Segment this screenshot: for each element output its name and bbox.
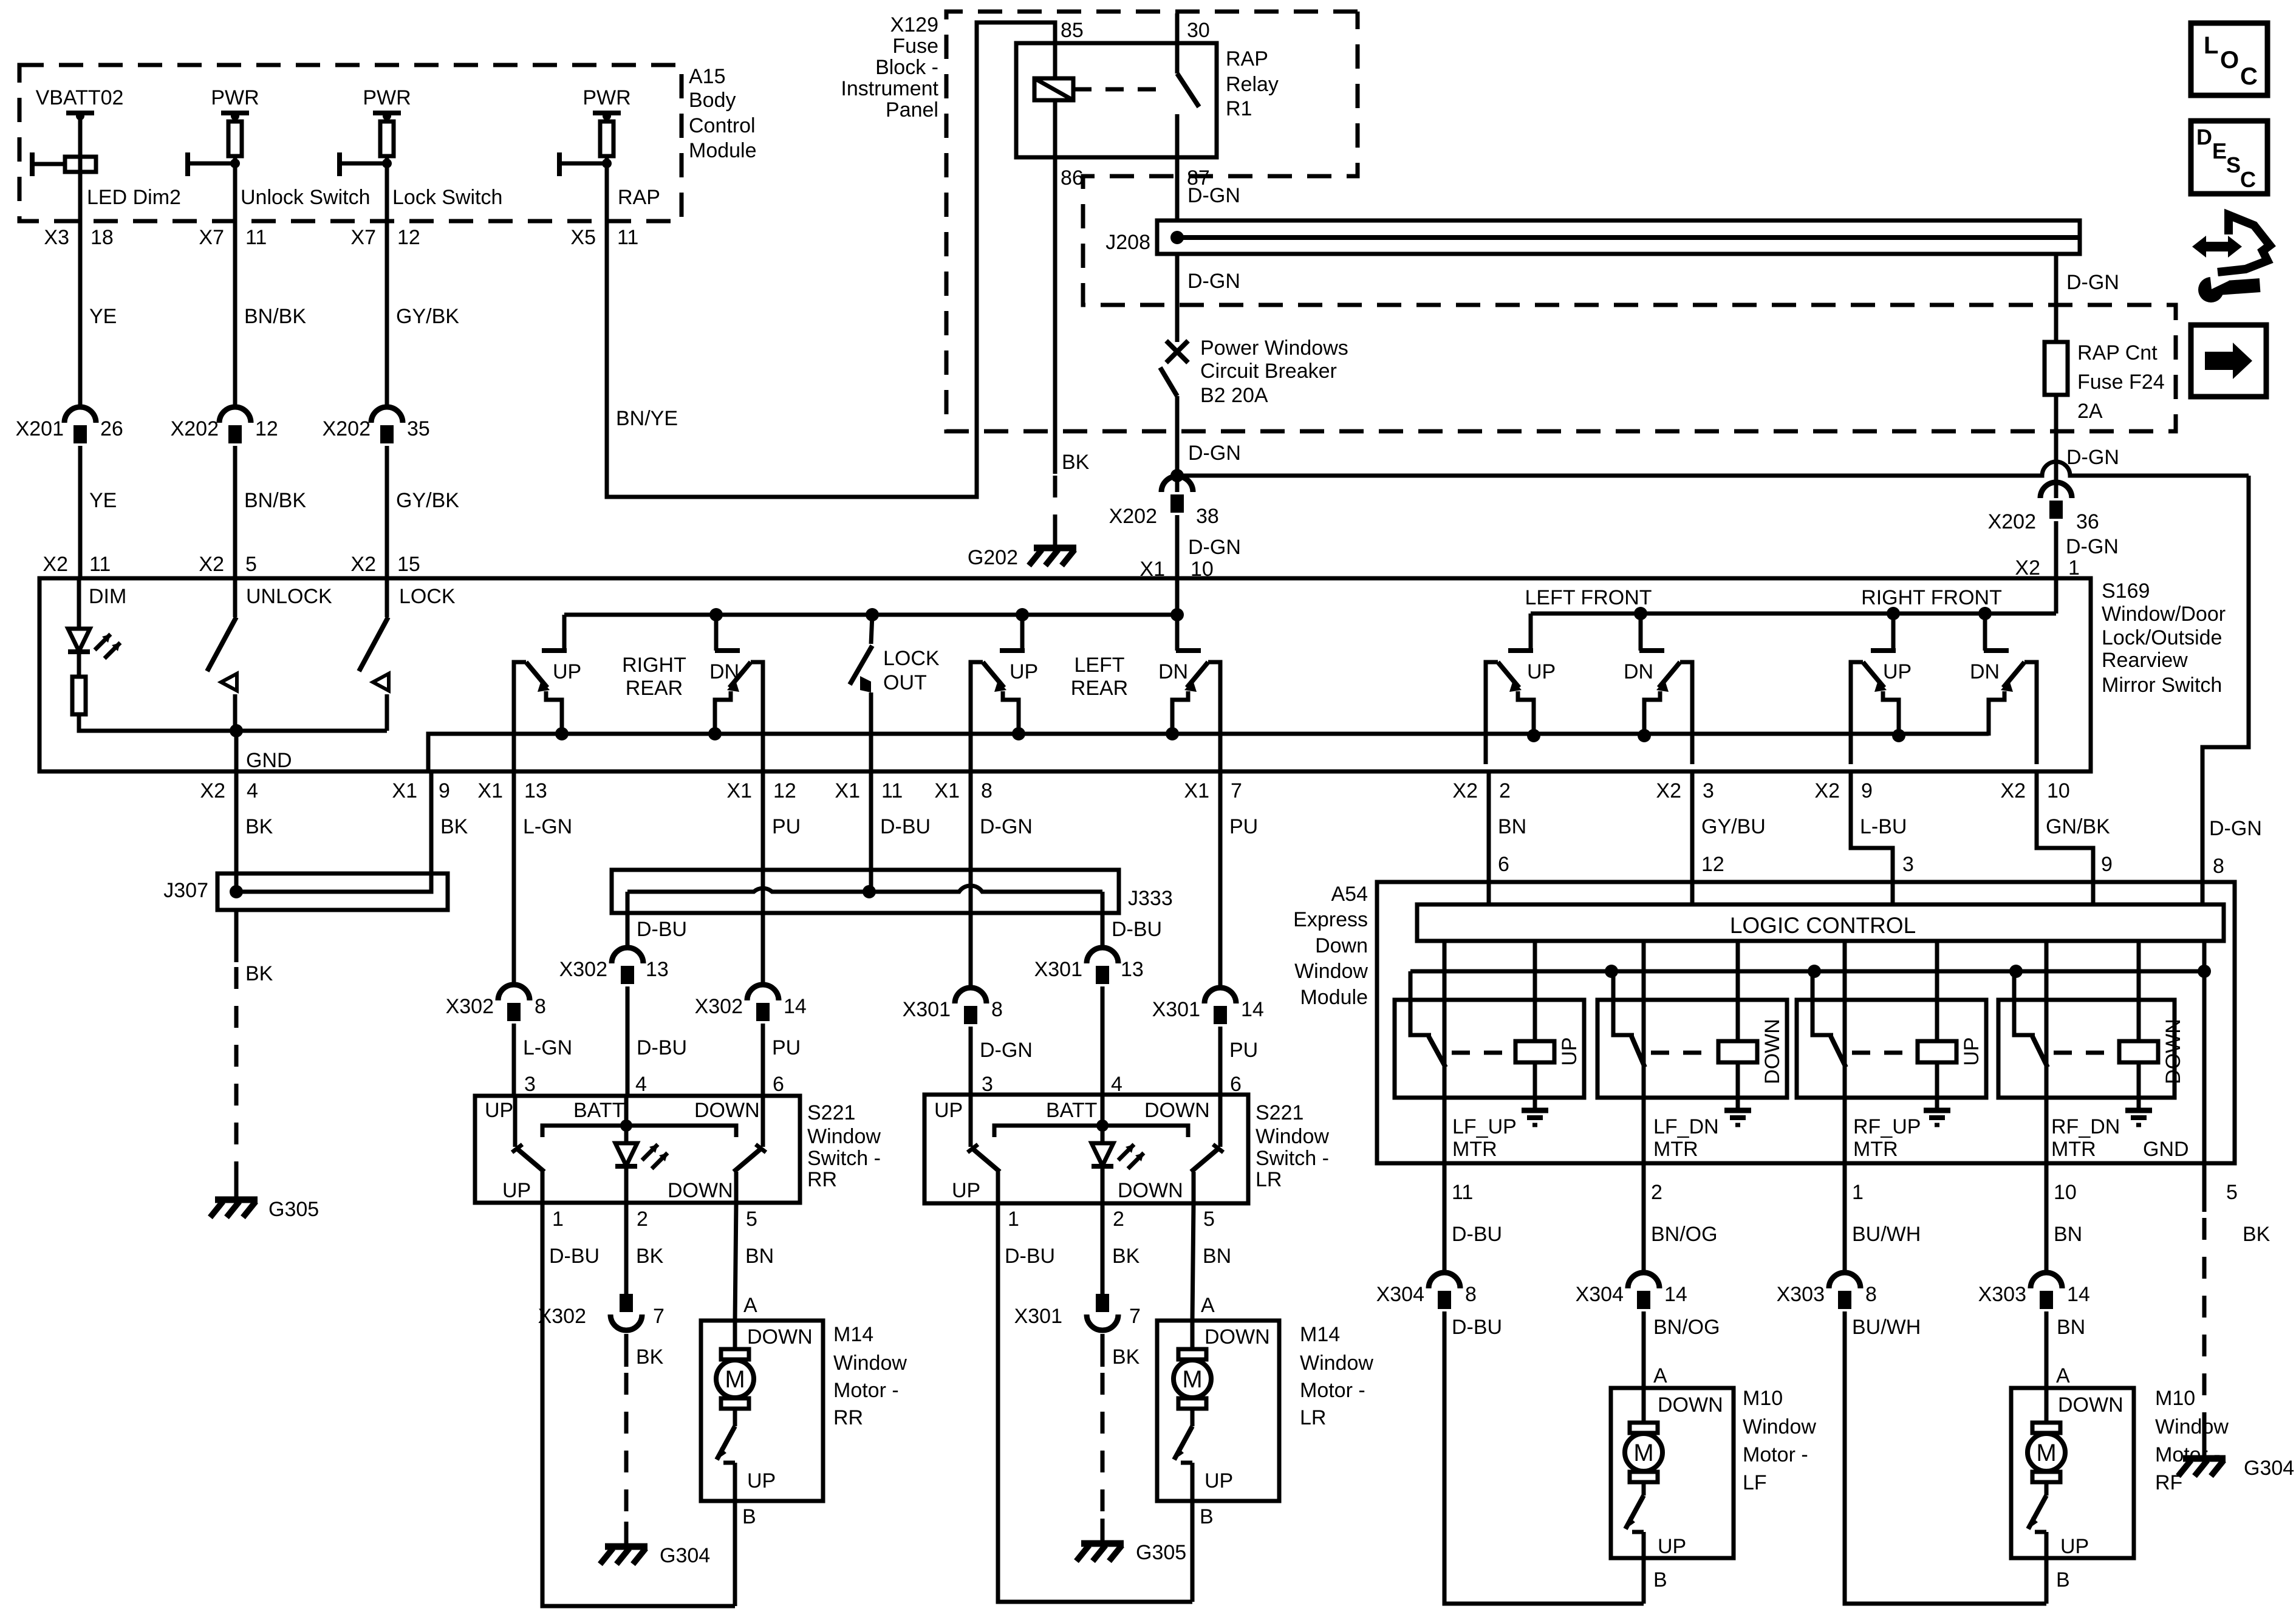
switch LOCK <box>359 578 389 731</box>
svg-text:M: M <box>1182 1366 1202 1393</box>
svg-text:35: 35 <box>407 417 430 440</box>
svg-text:S221: S221 <box>1256 1101 1303 1124</box>
svg-text:X1: X1 <box>934 779 960 802</box>
svg-text:Fuse: Fuse <box>892 35 938 58</box>
wire BN/BK from X7-11 <box>244 305 306 328</box>
svg-text:UP: UP <box>952 1179 980 1202</box>
wire D-GN fuse branch from J208 <box>2056 254 2119 342</box>
label UP motor RF <box>2060 1535 2089 1558</box>
wire D-BU pin1 LR down-route <box>998 1203 1192 1602</box>
svg-text:UP: UP <box>1883 660 1912 683</box>
svg-text:PU: PU <box>1229 1039 1258 1062</box>
svg-text:L: L <box>2204 32 2218 59</box>
LED DIM <box>68 578 120 658</box>
label DN left rear <box>1158 660 1188 683</box>
svg-text:14: 14 <box>1241 998 1264 1021</box>
junction J307 <box>163 873 448 910</box>
svg-text:X5: X5 <box>570 226 596 249</box>
svg-text:7: 7 <box>653 1305 665 1328</box>
label DIM <box>89 585 126 608</box>
svg-text:DN: DN <box>1970 660 2000 683</box>
svg-text:S169: S169 <box>2102 579 2150 603</box>
svg-text:D-BU: D-BU <box>1112 918 1162 941</box>
wire YE lower <box>89 489 117 512</box>
connector X202 38 <box>1109 442 1241 528</box>
svg-text:BK: BK <box>440 815 468 838</box>
label M10 Window Motor - RF <box>2155 1387 2229 1494</box>
svg-text:X1: X1 <box>477 779 503 802</box>
wire GN/BK X2-10 <box>2037 771 2113 904</box>
module A54 box <box>1377 882 2235 1163</box>
wire D-BU J333 to S221 RR batt <box>627 1036 687 1096</box>
svg-text:PU: PU <box>772 815 801 838</box>
switch motor LF <box>1625 1482 1644 1558</box>
node D-GN junction at X202-38 <box>1170 469 1184 482</box>
svg-text:11: 11 <box>881 779 903 802</box>
label A54 Express Down Window Module <box>1293 883 1368 1009</box>
svg-text:8: 8 <box>2213 855 2224 878</box>
svg-text:2A: 2A <box>2077 400 2103 423</box>
svg-text:BN: BN <box>1498 815 1526 838</box>
label X129 Fuse Block - Instrument Panel <box>841 13 938 121</box>
svg-text:D-BU: D-BU <box>637 918 687 941</box>
wire PU X1-7 <box>1220 771 1258 988</box>
svg-text:Switch -: Switch - <box>807 1147 881 1170</box>
svg-text:YE: YE <box>89 305 117 328</box>
switch S221 RR box <box>475 1096 800 1203</box>
svg-text:D-BU: D-BU <box>637 1036 687 1059</box>
svg-text:BN: BN <box>745 1245 774 1268</box>
svg-text:M: M <box>1633 1440 1653 1466</box>
svg-text:10: 10 <box>2054 1181 2077 1204</box>
switch LOCK OUT <box>850 615 872 771</box>
svg-text:BATT: BATT <box>573 1099 624 1122</box>
wire D-BU J333 right drop <box>637 892 1162 948</box>
wire BN/OG pin 2 <box>1644 1163 1718 1273</box>
svg-text:DN: DN <box>1158 660 1188 683</box>
connector X303 8 <box>1777 1273 1877 1309</box>
svg-text:4: 4 <box>635 1073 647 1096</box>
label DOWN motor RR <box>747 1325 813 1349</box>
svg-text:UP: UP <box>934 1099 963 1122</box>
relay R1 box <box>1016 43 1217 157</box>
svg-text:4: 4 <box>247 779 258 802</box>
svg-text:86: 86 <box>1061 166 1084 190</box>
svg-text:Body: Body <box>689 89 736 112</box>
circuit breaker B2 20A <box>1160 337 1348 475</box>
svg-text:X301: X301 <box>1014 1305 1062 1328</box>
svg-text:M: M <box>2036 1440 2056 1466</box>
label UP motor RR <box>747 1469 776 1492</box>
motor M10 RF box <box>2011 1388 2134 1558</box>
wire BK dashed to G304 <box>626 1334 664 1545</box>
motor M14 LR box <box>1157 1321 1279 1501</box>
connector X201 26 <box>16 221 123 578</box>
label relay RF_UP coil UP <box>1960 1037 1983 1065</box>
svg-text:DOWN: DOWN <box>1658 1393 1723 1417</box>
svg-text:12: 12 <box>397 226 420 249</box>
connector X301 7 <box>1014 1294 1141 1330</box>
relay LF_DN coil <box>1718 941 1757 1109</box>
svg-text:BU/WH: BU/WH <box>1852 1223 1921 1246</box>
svg-text:PWR: PWR <box>211 86 259 109</box>
svg-text:BK: BK <box>636 1345 664 1369</box>
svg-text:5: 5 <box>245 553 257 576</box>
junction J333 <box>612 870 1173 913</box>
svg-text:1: 1 <box>1008 1208 1019 1231</box>
svg-text:1: 1 <box>1852 1181 1864 1204</box>
wire D-BU X1-11 lockout <box>871 771 931 892</box>
svg-text:UP: UP <box>2060 1535 2089 1558</box>
wire BK dashed to G305 <box>234 967 239 1198</box>
svg-text:RAP Cnt: RAP Cnt <box>2077 341 2158 364</box>
switch S221 RR DOWN side <box>734 1096 766 1203</box>
svg-text:5: 5 <box>1203 1208 1215 1231</box>
svg-text:UP: UP <box>1658 1535 1686 1558</box>
relay LF_UP switch <box>1410 941 1446 1163</box>
svg-text:D-BU: D-BU <box>1452 1316 1502 1339</box>
svg-text:Unlock Switch: Unlock Switch <box>241 186 371 209</box>
ground G305 <box>210 1198 319 1221</box>
svg-text:Power Windows: Power Windows <box>1200 337 1348 360</box>
wire BK pin2 LR <box>1102 1203 1140 1294</box>
icon arrow box <box>2191 325 2266 397</box>
fuse block X129 dashed outline <box>946 12 2176 431</box>
svg-text:Motor -: Motor - <box>1300 1379 1365 1402</box>
svg-text:UP: UP <box>485 1099 513 1122</box>
svg-text:D-GN: D-GN <box>980 1039 1033 1062</box>
wire BK X1-9 <box>431 771 468 873</box>
svg-text:MTR: MTR <box>1452 1138 1497 1161</box>
svg-text:Module: Module <box>1300 986 1368 1009</box>
svg-text:UP: UP <box>1558 1037 1581 1065</box>
relay RF_UP switch <box>1813 941 1846 1163</box>
svg-text:C: C <box>2240 63 2258 90</box>
svg-text:DOWN: DOWN <box>1761 1019 1784 1084</box>
svg-text:LEFT: LEFT <box>1074 654 1124 677</box>
connector X202 12 <box>171 221 278 578</box>
svg-text:A: A <box>1653 1364 1667 1387</box>
svg-text:X7: X7 <box>350 226 376 249</box>
svg-text:X2: X2 <box>43 553 68 576</box>
svg-text:15: 15 <box>397 553 420 576</box>
motor M10 LF box <box>1611 1388 1734 1558</box>
svg-text:Fuse F24: Fuse F24 <box>2077 371 2165 394</box>
svg-text:6: 6 <box>1498 853 1509 876</box>
svg-text:DOWN: DOWN <box>1118 1179 1183 1202</box>
svg-text:YE: YE <box>89 489 117 512</box>
svg-text:GY/BU: GY/BU <box>1701 815 1766 838</box>
wire front feed bus D-GN <box>1531 612 2056 616</box>
svg-text:LF_UP: LF_UP <box>1452 1115 1517 1138</box>
svg-text:D-GN: D-GN <box>1187 270 1240 293</box>
svg-text:PWR: PWR <box>583 86 630 109</box>
svg-text:13: 13 <box>1121 958 1144 981</box>
svg-text:PU: PU <box>1229 815 1258 838</box>
label S221 Window Switch - RR <box>807 1101 881 1191</box>
svg-text:X1: X1 <box>1184 779 1209 802</box>
svg-text:S: S <box>2226 152 2241 177</box>
svg-text:Window: Window <box>1300 1352 1373 1375</box>
label UP right rear <box>553 660 581 683</box>
svg-text:26: 26 <box>100 417 123 440</box>
svg-text:DOWN: DOWN <box>694 1099 760 1122</box>
svg-text:X129: X129 <box>890 13 938 36</box>
svg-text:M: M <box>725 1366 745 1393</box>
wire GY/BK from X7-12 <box>396 305 459 328</box>
svg-text:GND: GND <box>2143 1138 2189 1161</box>
switch S221 LR UP side <box>968 1095 1000 1203</box>
resistor LED Dim2 <box>32 152 181 209</box>
ground G202 <box>968 546 1076 569</box>
switch S221 LR DOWN side <box>1191 1095 1223 1203</box>
wire D-GN below fuse <box>2056 395 2119 498</box>
svg-text:BN/OG: BN/OG <box>1651 1223 1718 1246</box>
switch RIGHT FRONT DN <box>1984 614 2037 764</box>
svg-text:X304: X304 <box>1576 1283 1624 1306</box>
svg-text:36: 36 <box>2076 510 2099 533</box>
svg-text:BK: BK <box>245 815 273 838</box>
svg-text:X1: X1 <box>392 779 417 802</box>
svg-text:8: 8 <box>1865 1283 1877 1306</box>
relay RF_UP box <box>1797 1000 1986 1098</box>
wire GY/BK lower <box>396 489 459 512</box>
svg-text:G304: G304 <box>2244 1457 2294 1480</box>
svg-text:UP: UP <box>1960 1037 1983 1065</box>
label UP BATT DOWN top row LR <box>934 1099 1210 1122</box>
ground relay LF_DN coil <box>1724 1110 1751 1125</box>
svg-text:2: 2 <box>1499 779 1511 802</box>
LED S221 LR <box>1092 1095 1144 1203</box>
wire BU/WH pin 1 <box>1845 1163 1921 1273</box>
svg-text:GND: GND <box>246 749 292 772</box>
relay LF_UP box <box>1395 1000 1584 1098</box>
wire GY/BU X2-3 <box>1692 771 1766 904</box>
svg-text:D-BU: D-BU <box>1005 1245 1055 1268</box>
svg-text:J307: J307 <box>163 879 208 902</box>
svg-text:UP: UP <box>1204 1469 1233 1492</box>
svg-text:D-GN: D-GN <box>2066 535 2119 558</box>
wire PU X1-12 <box>763 771 801 985</box>
svg-text:X1: X1 <box>835 779 860 802</box>
svg-text:X302: X302 <box>695 995 743 1018</box>
svg-text:RF_DN: RF_DN <box>2051 1115 2120 1138</box>
label LF_DN MTR <box>1653 1115 1719 1161</box>
label RIGHT REAR <box>622 654 686 700</box>
svg-text:X201: X201 <box>16 417 64 440</box>
label RIGHT FRONT <box>1861 586 2002 609</box>
label DOWN motor LR <box>1204 1325 1270 1349</box>
pin labels S221 LR top <box>982 1073 1242 1096</box>
svg-text:Window: Window <box>1294 960 1368 983</box>
svg-text:LR: LR <box>1300 1406 1326 1429</box>
wire BK pin2 RR <box>626 1203 664 1294</box>
svg-text:Window: Window <box>1743 1415 1816 1438</box>
svg-text:LOCK: LOCK <box>399 585 456 608</box>
relay RF_DN actuator dashed <box>2054 1051 2113 1055</box>
svg-text:UP: UP <box>1527 660 1556 683</box>
svg-text:LF: LF <box>1743 1471 1767 1494</box>
svg-text:12: 12 <box>255 417 278 440</box>
switch RIGHT FRONT UP <box>1851 614 1905 764</box>
svg-text:Circuit Breaker: Circuit Breaker <box>1200 360 1337 383</box>
svg-text:Lock Switch: Lock Switch <box>392 186 502 209</box>
svg-text:X2: X2 <box>1814 779 1840 802</box>
svg-text:X2: X2 <box>199 553 224 576</box>
svg-text:RIGHT: RIGHT <box>622 654 686 677</box>
svg-text:X3: X3 <box>44 226 69 249</box>
pin labels S169 bottom <box>200 779 2069 802</box>
wire BN pin 10 <box>2046 1163 2082 1273</box>
svg-text:X301: X301 <box>1152 998 1200 1021</box>
wire L-GN X1-13 <box>514 771 572 985</box>
svg-text:D-GN: D-GN <box>2066 446 2119 469</box>
svg-text:RAP: RAP <box>1226 47 1268 70</box>
svg-text:5: 5 <box>2226 1181 2238 1204</box>
wire D-GN right side down <box>2202 476 2262 904</box>
svg-text:38: 38 <box>1196 505 1219 528</box>
icon DESC box <box>2191 121 2267 194</box>
svg-text:D-GN: D-GN <box>1188 536 1241 559</box>
svg-text:2: 2 <box>1113 1208 1124 1231</box>
svg-text:BK: BK <box>1112 1245 1140 1268</box>
label DOWN motor LF <box>1658 1393 1723 1417</box>
svg-text:DIM: DIM <box>89 585 126 608</box>
svg-text:Block -: Block - <box>875 56 938 79</box>
svg-text:MTR: MTR <box>2051 1138 2096 1161</box>
svg-text:UNLOCK: UNLOCK <box>246 585 332 608</box>
pin labels S221 LR bottom <box>1008 1208 1215 1231</box>
pin PWR RAP <box>583 86 630 121</box>
svg-text:VBATT02: VBATT02 <box>36 86 124 109</box>
svg-text:PU: PU <box>772 1036 801 1059</box>
svg-text:BN: BN <box>2054 1223 2082 1246</box>
wire D-GN X2-1 <box>2015 521 2118 614</box>
svg-text:8: 8 <box>1465 1283 1477 1306</box>
svg-text:5: 5 <box>746 1208 757 1231</box>
svg-text:X304: X304 <box>1376 1283 1424 1306</box>
wire BATT bracket LR <box>994 1120 1188 1137</box>
svg-text:PWR: PWR <box>363 86 411 109</box>
svg-text:4: 4 <box>1111 1073 1122 1096</box>
svg-text:UP: UP <box>1010 660 1038 683</box>
svg-text:BK: BK <box>1112 1345 1140 1369</box>
motor M symbol RR <box>716 1321 754 1409</box>
svg-text:14: 14 <box>784 995 807 1018</box>
ground relay RF_DN coil <box>2125 1110 2152 1125</box>
wire BK dashed to G305 right <box>1102 1334 1140 1542</box>
wire rear feed bus D-GN <box>564 613 1177 617</box>
svg-text:B: B <box>1653 1568 1667 1591</box>
label UP BATT DOWN top row RR <box>485 1099 760 1122</box>
wire BK X2-4 <box>236 771 273 873</box>
label DN left front <box>1624 660 1653 683</box>
svg-text:O: O <box>2220 47 2239 73</box>
connector X301 14 <box>1152 988 1264 1095</box>
connector X304 14 <box>1576 1273 1687 1309</box>
svg-text:6: 6 <box>1230 1073 1242 1096</box>
wire YE from X3-18 <box>89 305 117 328</box>
label relay RF_DN coil DOWN <box>2162 1019 2185 1084</box>
wire BK relay 86 down <box>1055 157 1090 474</box>
svg-text:A15: A15 <box>689 65 726 88</box>
switch LEFT REAR UP <box>971 615 1025 771</box>
svg-text:REAR: REAR <box>626 677 683 700</box>
svg-text:Window: Window <box>2155 1415 2229 1438</box>
svg-text:Mirror Switch: Mirror Switch <box>2102 674 2222 697</box>
connector X304 8 <box>1376 1273 1477 1309</box>
switch motor LR <box>1174 1409 1192 1501</box>
wire BK below J307 solid <box>236 873 273 985</box>
svg-text:S221: S221 <box>807 1101 855 1124</box>
svg-text:C: C <box>2240 167 2256 192</box>
svg-text:RF_UP: RF_UP <box>1853 1115 1921 1138</box>
label UP right front <box>1883 660 1912 683</box>
svg-text:GY/BK: GY/BK <box>396 489 459 512</box>
svg-text:RIGHT FRONT: RIGHT FRONT <box>1861 586 2002 609</box>
svg-text:BN/YE: BN/YE <box>616 407 678 430</box>
svg-text:X303: X303 <box>1978 1283 2026 1306</box>
resistor PWR lock <box>340 121 502 221</box>
svg-text:1: 1 <box>2068 556 2080 579</box>
wire BK pin 5 dashed <box>2204 1163 2270 1455</box>
svg-text:Motor -: Motor - <box>833 1379 899 1402</box>
svg-text:12: 12 <box>1701 853 1724 876</box>
label LOCK OUT <box>883 647 940 694</box>
relay R1 coil <box>1034 43 1073 157</box>
svg-text:3: 3 <box>982 1073 993 1096</box>
svg-text:14: 14 <box>1664 1283 1687 1306</box>
relay R1 actuator dashed <box>1073 87 1170 92</box>
svg-text:RAP: RAP <box>618 186 660 209</box>
svg-text:8: 8 <box>535 995 546 1018</box>
connector X303 14 <box>1978 1273 2090 1309</box>
relay RF_UP coil <box>1918 941 1956 1109</box>
label UNLOCK <box>246 585 332 608</box>
svg-text:X2: X2 <box>2015 556 2040 579</box>
wire GND pin 5 inside A54 <box>2202 941 2207 1163</box>
wire D-GN horizontal to right with hop <box>1177 462 2249 476</box>
svg-text:X301: X301 <box>1034 958 1082 981</box>
svg-text:DOWN: DOWN <box>1144 1099 1210 1122</box>
svg-text:RF: RF <box>2155 1471 2182 1494</box>
svg-text:X302: X302 <box>559 958 607 981</box>
svg-text:GY/BK: GY/BK <box>396 305 459 328</box>
svg-text:3: 3 <box>524 1073 536 1096</box>
svg-text:7: 7 <box>1129 1305 1141 1328</box>
svg-text:11: 11 <box>617 226 638 249</box>
svg-text:D: D <box>2196 125 2212 149</box>
svg-text:Window: Window <box>1256 1125 1329 1148</box>
label LEFT REAR <box>1071 654 1128 700</box>
switch RIGHT REAR UP <box>514 615 569 771</box>
svg-text:10: 10 <box>2047 779 2070 802</box>
connector X302 8 <box>446 985 573 1096</box>
switch LEFT REAR DN <box>1166 615 1220 771</box>
svg-text:X2: X2 <box>2000 779 2026 802</box>
pin labels S221 RR bottom <box>552 1208 757 1231</box>
svg-text:D-GN: D-GN <box>2209 817 2262 840</box>
relay LF_DN box <box>1597 1000 1787 1098</box>
svg-text:18: 18 <box>91 226 114 249</box>
connector X302 7 <box>538 1294 665 1330</box>
label RAP Relay R1 <box>1226 47 1279 120</box>
svg-text:BK: BK <box>1062 451 1090 474</box>
svg-text:X202: X202 <box>1988 510 2036 533</box>
pin labels S169 top <box>43 553 420 576</box>
switch S221 RR UP side <box>512 1096 544 1203</box>
svg-text:Instrument: Instrument <box>841 77 938 100</box>
